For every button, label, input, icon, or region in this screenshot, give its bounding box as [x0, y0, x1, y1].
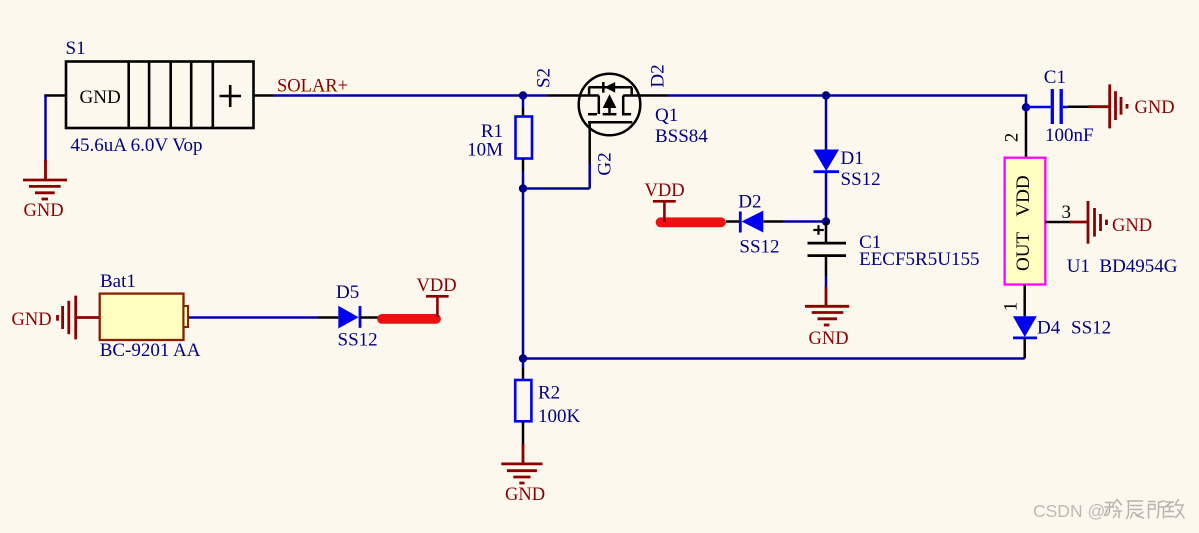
svg-text:GND: GND — [505, 485, 545, 505]
svg-text:D5: D5 — [336, 282, 359, 303]
wire Q1 drain to top-right corner — [668, 96, 1026, 108]
battery Bat1 — [100, 294, 184, 340]
S1 right pin — [254, 94, 274, 97]
svg-text:3: 3 — [1062, 202, 1072, 223]
power VDD symbol — [663, 201, 666, 222]
svg-text:S1: S1 — [66, 38, 86, 59]
capacitor C1 EECF5R5U155 — [808, 242, 847, 245]
diode D2 — [742, 211, 764, 233]
svg-text:SS12: SS12 — [841, 169, 881, 190]
svg-text:100K: 100K — [538, 406, 581, 427]
svg-text:GND: GND — [809, 329, 849, 349]
capacitor C1 polarity + — [813, 229, 824, 231]
node bottom junction — [519, 354, 527, 362]
svg-text:VDD: VDD — [1013, 175, 1034, 216]
svg-text:EECF5R5U155: EECF5R5U155 — [859, 249, 979, 270]
wire bottom bus — [523, 357, 1025, 360]
wire gate to junction — [588, 164, 591, 189]
wire D4 bottom — [1023, 338, 1026, 359]
resistor R1 — [516, 117, 533, 159]
svg-text:2: 2 — [1001, 133, 1022, 143]
ground GND (pin3) — [1070, 201, 1107, 244]
svg-text:S2: S2 — [533, 68, 554, 88]
ground GND (right of C1 100nF) — [1089, 84, 1128, 128]
node C1/U1 junction — [1022, 103, 1030, 111]
node D2/C1 junction — [822, 217, 830, 225]
wire SOLAR+ (S1 to Q1 source) — [274, 94, 549, 97]
wire U1 pin1 — [1023, 285, 1026, 317]
wire D1 top — [825, 96, 828, 150]
watermark glyph jin — [1105, 500, 1122, 518]
svg-text:SOLAR+: SOLAR+ — [277, 77, 348, 97]
solar cell S1 — [66, 62, 254, 129]
svg-text:D4: D4 — [1037, 317, 1061, 338]
svg-text:D2: D2 — [647, 64, 668, 87]
ground GND (under C1) — [805, 287, 849, 325]
svg-text:SS12: SS12 — [1071, 317, 1111, 338]
wire C1 100nF to GND — [1068, 105, 1089, 108]
diode D5 — [338, 306, 358, 329]
svg-text:SS12: SS12 — [739, 236, 779, 257]
wire junction to C1 100nF — [1026, 106, 1051, 109]
wire C1 polar bottom — [825, 256, 828, 277]
capacitor C1 100nF — [1051, 89, 1054, 124]
svg-text:GND: GND — [80, 87, 121, 108]
S1 left pin — [44, 94, 66, 97]
svg-text:U1 BD4954G: U1 BD4954G — [1067, 256, 1178, 277]
VDD power bar (thick red) — [661, 217, 722, 227]
svg-text:CSDN @: CSDN @ — [1033, 501, 1105, 521]
wire S1 left to GND — [44, 96, 47, 163]
svg-text:BC-9201 AA: BC-9201 AA — [100, 340, 201, 361]
node S2 junction — [519, 91, 527, 99]
wire R1 top — [522, 96, 525, 109]
svg-text:VDD: VDD — [645, 181, 685, 201]
ground GND (under R2) — [501, 444, 542, 483]
svg-text:1: 1 — [1000, 302, 1021, 312]
diode D4 — [1013, 316, 1037, 337]
power VDD symbol — [436, 296, 439, 317]
svg-text:BSS84: BSS84 — [655, 126, 708, 147]
svg-text:Bat1: Bat1 — [100, 271, 136, 292]
wire D2 left pin — [726, 220, 739, 223]
svg-text:GND: GND — [1135, 98, 1175, 118]
wire D5 to VDD bar — [360, 316, 380, 319]
transistor Q1 — [548, 74, 668, 164]
VDD power bar (thick red) — [382, 314, 436, 324]
resistor R2 — [515, 380, 531, 421]
wire battery to D5 — [189, 316, 318, 319]
wire R1 bottom — [522, 159, 525, 172]
node R1/gate junction — [519, 184, 527, 192]
wire R2 branch vertical — [522, 189, 525, 359]
svg-text:R2: R2 — [538, 383, 560, 404]
ground GND (under S1) — [23, 160, 67, 199]
wire D2 right — [783, 220, 826, 223]
svg-text:10M: 10M — [467, 140, 503, 161]
watermark glyph chen — [1127, 501, 1144, 519]
watermark glyph suo — [1149, 501, 1166, 518]
wire R2 top — [522, 359, 525, 369]
svg-text:G2: G2 — [594, 152, 615, 175]
wire U1 pin2 — [1025, 107, 1028, 112]
watermark glyph zhi — [1165, 500, 1184, 519]
wire C1 polar top — [825, 222, 828, 244]
svg-text:D2: D2 — [738, 192, 761, 213]
svg-text:GND: GND — [24, 201, 64, 221]
svg-text:Q1: Q1 — [655, 105, 678, 126]
svg-text:SS12: SS12 — [338, 330, 378, 351]
svg-text:D1: D1 — [841, 148, 864, 169]
svg-text:GND: GND — [1112, 216, 1152, 236]
svg-text:45.6uA 6.0V Vop: 45.6uA 6.0V Vop — [71, 135, 203, 156]
svg-text:C1: C1 — [1044, 67, 1066, 88]
op-amp U1 BD4954G body — [1005, 158, 1046, 285]
wire U1 pin3 — [1045, 221, 1070, 224]
wire R2 bottom — [522, 421, 525, 446]
svg-text:VDD: VDD — [417, 276, 457, 296]
svg-text:GND: GND — [12, 310, 52, 330]
wire D1 bottom — [825, 172, 828, 222]
svg-text:100nF: 100nF — [1045, 125, 1094, 146]
svg-text:OUT: OUT — [1013, 232, 1034, 271]
diode D1 — [814, 150, 840, 172]
node D1 top junction — [822, 91, 830, 99]
